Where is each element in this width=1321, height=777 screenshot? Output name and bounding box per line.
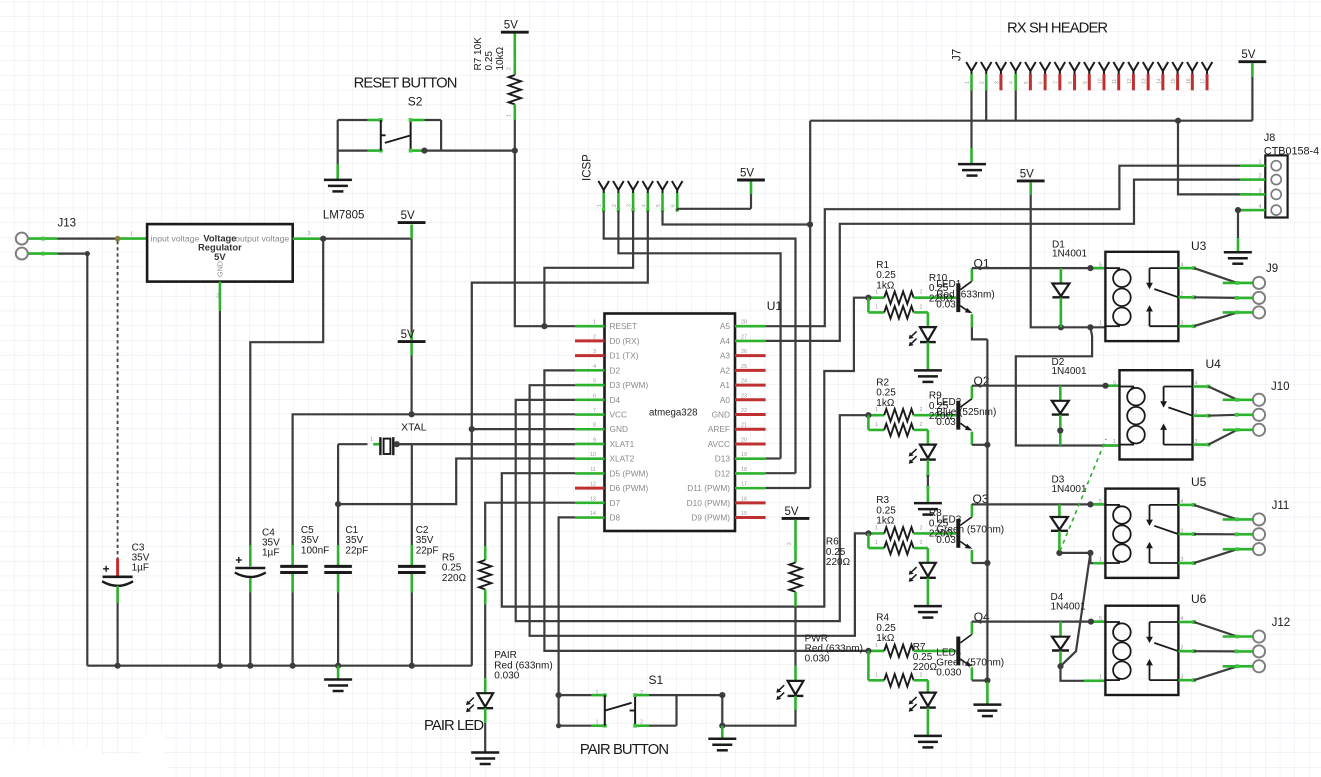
svg-text:1: 1 <box>596 720 599 726</box>
wire J7 pin2 to RX rail <box>985 90 987 120</box>
wire A5 to J8 pin1 <box>766 166 1253 327</box>
svg-text:4: 4 <box>593 364 596 370</box>
svg-text:3: 3 <box>308 231 311 237</box>
diode D1 1N4001 <box>1060 268 1063 283</box>
svg-text:22pF: 22pF <box>345 545 368 556</box>
svg-text:1: 1 <box>1259 160 1262 166</box>
svg-text:J7: J7 <box>952 49 964 61</box>
wire emitter ground bus <box>986 339 988 682</box>
svg-text:A0: A0 <box>720 395 731 405</box>
resistor R6 220 <box>794 520 797 563</box>
wire J8 pin2 lead <box>1240 178 1253 181</box>
svg-text:2: 2 <box>612 204 618 207</box>
capacitor C3 <box>116 559 119 577</box>
resistor R9 220 <box>868 429 884 432</box>
svg-text:17: 17 <box>741 482 747 488</box>
svg-text:5V: 5V <box>214 251 226 262</box>
svg-text:5: 5 <box>1024 81 1030 84</box>
svg-text:220Ω: 220Ω <box>442 573 467 584</box>
wire RX header 5V rail <box>810 120 1252 122</box>
svg-text:D12: D12 <box>715 468 731 478</box>
node U5 pin5 junction <box>1087 501 1093 507</box>
node bus junctions <box>115 663 121 669</box>
svg-text:4: 4 <box>1259 204 1262 210</box>
ground (PAIR LED) <box>471 751 499 754</box>
svg-text:2: 2 <box>640 720 643 726</box>
wire PWR LED to S1/ground <box>794 696 797 710</box>
svg-text:RESET: RESET <box>610 321 638 331</box>
svg-text:0.03: 0.03 <box>936 535 956 546</box>
svg-text:16: 16 <box>1186 78 1192 84</box>
svg-text:21: 21 <box>741 423 747 429</box>
svg-text:5: 5 <box>593 379 596 385</box>
svg-text:28: 28 <box>741 320 747 326</box>
svg-text:1: 1 <box>875 672 878 678</box>
wire S2 to R7/RESET net <box>441 150 515 152</box>
svg-text:3: 3 <box>1259 188 1262 194</box>
wire D4 bottom to U6 pin1 <box>1061 666 1106 681</box>
svg-text:10: 10 <box>1097 78 1103 84</box>
IC U1 atmega328 box <box>605 314 736 532</box>
svg-text:5V: 5V <box>1020 168 1034 180</box>
svg-text:24: 24 <box>741 379 747 385</box>
svg-text:D13: D13 <box>715 454 731 464</box>
wire D3 bottom to U5 pin1 <box>1059 552 1090 554</box>
wire XTAL2 to C2 <box>411 445 413 545</box>
capacitor C4 <box>235 567 265 570</box>
wire LED3 to ground <box>927 578 930 606</box>
svg-text:12: 12 <box>590 482 596 488</box>
ground (bottom bus) <box>337 666 340 680</box>
svg-text:2: 2 <box>920 290 923 296</box>
resistor R10 220 <box>868 311 884 314</box>
wire ICSP pin2 to D13 <box>618 211 780 459</box>
svg-text:GND: GND <box>216 261 225 277</box>
pair button S1 <box>557 695 559 726</box>
svg-text:J10: J10 <box>1271 381 1290 393</box>
connector J12 <box>1253 630 1265 642</box>
svg-text:0.03: 0.03 <box>936 417 956 428</box>
wire ICSP pin5 to RX/D11 net <box>663 211 811 225</box>
svg-text:PAIR BUTTON: PAIR BUTTON <box>580 742 668 758</box>
ground (S2) <box>324 179 352 182</box>
svg-text:7: 7 <box>593 408 596 414</box>
node XTAL pin2 <box>394 441 400 447</box>
wire Q3 emitter to bus <box>972 562 988 564</box>
node R7 bottom junction <box>512 148 518 154</box>
svg-text:XTAL: XTAL <box>401 422 427 434</box>
wire dashed pending (D3 to U4) <box>1060 439 1106 551</box>
wire regulator output to 5V flag <box>293 237 324 240</box>
wire Q1 collector line to U3 pin5 <box>972 267 1106 269</box>
wire R6/PWR LED to bus1 <box>794 607 796 666</box>
LED LED3 <box>927 564 929 578</box>
svg-text:14: 14 <box>1156 78 1162 84</box>
svg-text:2: 2 <box>593 334 596 340</box>
wire S2 to ground <box>337 151 339 164</box>
transistor Q4 <box>956 637 960 666</box>
svg-text:D9 (PWM): D9 (PWM) <box>691 513 730 523</box>
wire LED2 to ground <box>927 460 930 475</box>
wire ICSP pin6 to 5V <box>676 209 678 211</box>
svg-text:2: 2 <box>507 67 513 70</box>
wire R2 to R9 <box>867 415 870 430</box>
svg-text:1: 1 <box>130 232 133 238</box>
header J7 pins <box>966 62 971 71</box>
svg-text:1N4001: 1N4001 <box>1052 366 1087 377</box>
svg-text:27: 27 <box>741 334 747 340</box>
node U3 pin1 junction <box>1087 324 1093 330</box>
svg-text:0.25: 0.25 <box>484 51 495 71</box>
LED LED2 <box>927 446 929 460</box>
capacitor C2 <box>398 565 426 568</box>
relay U6 <box>1105 606 1178 695</box>
svg-text:5: 5 <box>1113 381 1116 387</box>
node J13-pin1/C3 junction <box>115 236 121 242</box>
svg-text:2: 2 <box>1259 174 1262 180</box>
LED PAIR <box>484 694 486 708</box>
svg-text:J9: J9 <box>1266 263 1278 275</box>
wire ICSP pin4 to GND net <box>472 211 648 666</box>
svg-text:220Ω: 220Ω <box>913 662 938 673</box>
svg-text:S2: S2 <box>408 94 423 108</box>
wire XTAL1 net to C1 and XLAT2 <box>338 443 367 445</box>
ground (pair button) <box>721 726 724 739</box>
svg-text:5: 5 <box>1099 262 1102 268</box>
wire D4 chain diagonal to D3 net <box>1061 553 1091 666</box>
svg-text:XLAT2: XLAT2 <box>610 454 635 464</box>
wire Q3 collector line to U5 pin5 <box>972 503 1106 505</box>
wire U3 pin1 chain to U4 pin1 <box>1016 327 1120 445</box>
wire D2 to R4 feed bus <box>544 370 868 651</box>
node VCC junction at 5V stem <box>409 411 415 417</box>
wire ICSP pin3 to RESET <box>544 211 633 327</box>
power flag 5V (LM7805 output) <box>398 221 426 224</box>
wire R7 to LED4 <box>927 680 930 692</box>
wire Q1 emitter to bus <box>972 327 988 339</box>
node R1 input junction <box>865 295 871 301</box>
svg-text:5V: 5V <box>740 168 754 180</box>
LED LED1 <box>927 328 929 342</box>
svg-text:1N4001: 1N4001 <box>1052 249 1087 260</box>
diode D2 1N4001 <box>1059 386 1062 401</box>
relay U4 <box>1120 370 1193 459</box>
svg-text:19: 19 <box>741 452 747 458</box>
svg-text:0.030: 0.030 <box>494 671 519 682</box>
svg-text:13: 13 <box>590 496 596 502</box>
node ICSP pin5 junction <box>807 221 813 227</box>
wire Q2 collector line to U4 pin5 <box>972 385 1106 387</box>
wire PAIR LED to ground <box>484 708 487 723</box>
wire A4 to J8 pin2 <box>766 180 1253 341</box>
header ICSP pins <box>598 181 603 190</box>
svg-text:D3 (PWM): D3 (PWM) <box>610 380 649 390</box>
wire LED4 to ground <box>927 708 930 736</box>
wire Q4 collector line to U6 pin5 <box>972 620 1106 622</box>
node RX/J8 pin3 junction <box>1175 118 1181 124</box>
svg-text:1: 1 <box>593 320 596 326</box>
node D4 bottom junction <box>1057 663 1063 669</box>
svg-text:22: 22 <box>741 408 747 414</box>
svg-text:D5 (PWM): D5 (PWM) <box>610 468 649 478</box>
svg-text:5V: 5V <box>785 506 799 518</box>
node regulator output junction <box>320 236 326 242</box>
wire LED1 to ground <box>927 342 930 370</box>
svg-text:15: 15 <box>1171 78 1177 84</box>
svg-text:input voltage: input voltage <box>151 233 200 243</box>
power flag 5V (IC bottom) <box>782 517 810 520</box>
svg-text:20: 20 <box>741 437 747 443</box>
svg-text:6: 6 <box>593 393 596 399</box>
svg-text:2: 2 <box>216 294 219 300</box>
svg-text:D10 (PWM): D10 (PWM) <box>687 498 731 508</box>
power flag 5V (RX right) <box>1239 60 1267 63</box>
svg-text:8: 8 <box>593 423 596 429</box>
wire R10 to LED1 <box>927 312 930 327</box>
svg-text:1: 1 <box>875 304 878 310</box>
svg-text:10: 10 <box>590 452 596 458</box>
node XTAL1/C1/XLAT2 junction <box>335 501 341 507</box>
svg-text:1: 1 <box>1099 557 1102 563</box>
svg-text:25: 25 <box>741 364 747 370</box>
svg-text:LM7805: LM7805 <box>323 210 365 222</box>
wire J13 pin1 to regulator input <box>28 237 58 240</box>
svg-text:ICSP: ICSP <box>582 154 594 181</box>
svg-text:output voltage: output voltage <box>235 233 289 243</box>
wire J7 pin4 to RX rail <box>1015 90 1017 120</box>
wire VCC line to C5 branch <box>293 414 575 545</box>
svg-text:R7 10K: R7 10K <box>473 37 484 71</box>
svg-text:5V: 5V <box>1241 49 1255 61</box>
svg-text:6: 6 <box>1039 81 1045 84</box>
svg-text:15: 15 <box>741 511 747 517</box>
svg-text:2: 2 <box>787 542 793 545</box>
wire J8 pin4 to ground <box>1238 209 1253 211</box>
node R3 input junction <box>865 530 871 536</box>
svg-text:5V: 5V <box>401 329 415 341</box>
svg-text:23: 23 <box>741 393 747 399</box>
power flag 5V (ICSP) <box>737 179 765 182</box>
resistor R4 1k <box>868 650 884 653</box>
svg-text:4: 4 <box>1009 81 1015 84</box>
ground (LED1) <box>914 369 942 372</box>
svg-text:1kΩ: 1kΩ <box>876 398 895 409</box>
wire 5V flag to VCC line <box>410 343 413 355</box>
svg-text:100nF: 100nF <box>301 545 329 556</box>
white overlay bottom-left <box>0 746 102 777</box>
resistor R1 1k <box>868 296 884 299</box>
svg-text:RX SH HEADER: RX SH HEADER <box>1007 21 1107 37</box>
svg-text:U4: U4 <box>1206 357 1222 371</box>
svg-text:12: 12 <box>1127 78 1133 84</box>
svg-text:D2: D2 <box>610 365 621 375</box>
resistor R7 220 <box>868 679 884 682</box>
wire J8 pin1 lead <box>1240 164 1253 167</box>
svg-text:RESET BUTTON: RESET BUTTON <box>354 76 457 92</box>
svg-text:0.03: 0.03 <box>936 300 956 311</box>
svg-text:A5: A5 <box>720 321 731 331</box>
svg-text:11: 11 <box>1112 79 1118 84</box>
wire XLAT2 route <box>338 459 575 505</box>
wire XTAL2 to XLAT1 <box>397 443 575 445</box>
node U3 pin5 junction <box>1087 265 1093 271</box>
node U6 pin5 junction <box>1088 619 1094 625</box>
wire Q2 emitter to bus <box>972 444 988 446</box>
svg-text:2: 2 <box>980 81 986 84</box>
svg-text:2: 2 <box>920 422 923 428</box>
svg-text:A2: A2 <box>720 365 731 375</box>
connector J10 <box>1253 394 1265 406</box>
connector J13 <box>16 233 28 245</box>
wire dashed J13 net over C3 <box>117 241 119 559</box>
svg-text:D8: D8 <box>610 513 621 523</box>
relay U5 <box>1105 489 1178 578</box>
svg-text:10kΩ: 10kΩ <box>495 46 506 70</box>
svg-text:4: 4 <box>641 204 647 207</box>
svg-text:18: 18 <box>741 467 747 473</box>
svg-text:2: 2 <box>920 525 923 531</box>
wire D8 to S1 <box>559 517 575 695</box>
ground (emitter bus) <box>986 682 989 704</box>
wire D7 to R5 <box>485 503 575 546</box>
ground (LED2) <box>914 502 942 505</box>
svg-text:2: 2 <box>920 304 923 310</box>
connector J9 <box>1253 277 1265 289</box>
node R4 input junction <box>865 648 871 654</box>
svg-text:XLAT1: XLAT1 <box>610 439 635 449</box>
svg-text:D4: D4 <box>610 395 621 405</box>
wire D3 to R3 feed bus <box>530 385 869 636</box>
node D1 bottom junction <box>1058 324 1064 330</box>
capacitor C5 <box>280 565 308 568</box>
svg-text:1µF: 1µF <box>262 548 279 559</box>
svg-text:0.030: 0.030 <box>936 668 961 679</box>
svg-text:D6 (PWM): D6 (PWM) <box>610 483 649 493</box>
svg-text:AREF: AREF <box>708 424 730 434</box>
IC U1 pins <box>575 325 605 328</box>
resistor R5 220 (pair) <box>484 546 487 560</box>
svg-text:U1: U1 <box>767 299 783 313</box>
svg-text:J12: J12 <box>1272 617 1291 629</box>
svg-text:J11: J11 <box>1272 500 1290 512</box>
voltage regulator U-LM7805 box <box>147 224 293 282</box>
node RESET junction with ICSP <box>541 323 547 329</box>
power flag 5V (R7 pullup) <box>501 31 529 34</box>
svg-text:22pF: 22pF <box>416 545 439 556</box>
resistor R8 220 <box>868 547 884 550</box>
svg-text:1: 1 <box>596 690 599 696</box>
svg-text:A1: A1 <box>720 380 731 390</box>
wire 5V to U3 pin1 <box>1029 182 1032 195</box>
svg-text:3: 3 <box>593 349 596 355</box>
svg-text:CTB0158-4: CTB0158-4 <box>1264 146 1319 158</box>
wire S1 to junction <box>677 695 723 726</box>
svg-text:1: 1 <box>370 437 373 443</box>
svg-text:GND: GND <box>610 424 628 434</box>
wire bottom ground bus <box>87 665 472 667</box>
svg-text:3: 3 <box>994 81 1000 84</box>
wire XLAT1 to crystal <box>397 443 575 445</box>
wire Q4 emitter to bus <box>972 679 988 681</box>
svg-text:1: 1 <box>875 540 878 546</box>
svg-text:7: 7 <box>1053 81 1059 84</box>
svg-text:1µF: 1µF <box>132 563 149 574</box>
svg-text:17: 17 <box>1201 78 1207 84</box>
svg-text:5: 5 <box>1099 499 1102 505</box>
diode D3 1N4001 <box>1058 504 1061 517</box>
svg-text:D11 (PWM): D11 (PWM) <box>687 483 730 493</box>
svg-text:U6: U6 <box>1191 592 1207 606</box>
resistor R3 1k <box>868 532 884 535</box>
reset button S2 <box>337 120 339 151</box>
wire RX junction to J8 pin3 <box>1178 121 1253 195</box>
capacitor C1 <box>324 565 352 568</box>
node J8 pin4 junction <box>1235 207 1241 213</box>
transistor Q2 <box>956 401 960 430</box>
relay U3 <box>1105 252 1178 341</box>
svg-text:U5: U5 <box>1191 475 1207 489</box>
node S1/D8 junction <box>556 692 562 698</box>
transistor Q1 <box>956 283 960 312</box>
svg-text:1kΩ: 1kΩ <box>876 280 895 291</box>
svg-text:5: 5 <box>1099 616 1102 622</box>
svg-text:220Ω: 220Ω <box>826 557 851 568</box>
wire D4 to R2 feed bus <box>516 400 869 621</box>
svg-text:A4: A4 <box>720 336 731 346</box>
connector J8 CTB0158-4 <box>1265 155 1287 217</box>
svg-text:6: 6 <box>671 204 677 207</box>
wire J13 pin2 down to bottom ground bus <box>28 252 58 255</box>
svg-text:9: 9 <box>1083 81 1089 84</box>
wire D5 to R1 feed bus <box>502 298 869 607</box>
ground (J8 pin4) <box>1224 251 1252 254</box>
resistor R7 10K pullup <box>513 34 516 76</box>
wire J7 pin1 to ground <box>970 90 972 148</box>
svg-text:16: 16 <box>741 496 747 502</box>
wire regulator GND pin down to ground bus <box>219 282 222 311</box>
svg-text:1: 1 <box>1099 320 1102 326</box>
wire ICSP pin1 to D12 <box>604 211 796 474</box>
svg-text:D7: D7 <box>610 498 621 508</box>
LED LED4 <box>927 694 929 708</box>
svg-text:1: 1 <box>507 114 513 117</box>
svg-text:2: 2 <box>640 690 643 696</box>
resistor R2 1k <box>868 414 884 417</box>
wire R3 to R8 <box>867 533 870 548</box>
svg-text:atmega328: atmega328 <box>649 408 697 419</box>
wire down to RESET pin <box>515 151 545 327</box>
svg-text:AVCC: AVCC <box>708 439 730 449</box>
wire RX 5V stem <box>1251 63 1254 77</box>
svg-text:1N4001: 1N4001 <box>1052 484 1087 495</box>
power flag 5V (XTAL area) <box>398 340 426 343</box>
svg-text:1kΩ: 1kΩ <box>876 516 895 527</box>
svg-text:U3: U3 <box>1191 239 1207 253</box>
svg-text:J8: J8 <box>1264 132 1275 144</box>
svg-text:1: 1 <box>1113 439 1116 445</box>
svg-text:1N4001: 1N4001 <box>1051 601 1086 612</box>
wire 5V down to C4 branch <box>411 239 413 332</box>
svg-text:1: 1 <box>1099 674 1102 680</box>
svg-text:D0 (RX): D0 (RX) <box>610 336 640 346</box>
node U4 pin5 junction <box>1102 383 1108 389</box>
node GND pin junction <box>469 426 475 432</box>
wire R8 to LED3 <box>927 548 930 563</box>
svg-text:5V: 5V <box>504 20 518 32</box>
svg-text:PAIR LED: PAIR LED <box>424 718 483 734</box>
node S2 output <box>421 148 427 154</box>
wire GND pin to vertical <box>472 428 575 430</box>
